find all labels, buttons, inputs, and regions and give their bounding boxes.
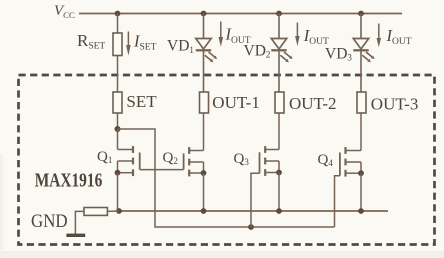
resistor RSET [113, 33, 122, 56]
node junction dots on VCC rail [115, 11, 121, 17]
resistor OUT-2 [275, 92, 284, 113]
node dots on GND rail [116, 208, 122, 214]
current arrow IOUT1 [220, 22, 222, 38]
wire Q4 source to GND rail [360, 173, 362, 211]
resistor R-GND (horizontal) [84, 208, 107, 216]
wire VCC rail [79, 13, 402, 15]
current arrow ISET [127, 32, 129, 46]
wire bus to Q3 gate [251, 173, 260, 227]
wire Q2 drain to OUT-1 [203, 113, 205, 151]
wire SET resistor to node A [117, 113, 119, 129]
wire gate bus from node A [118, 129, 335, 227]
wire node A to Q1 drain [117, 129, 119, 150]
wire VCC to RSET [117, 14, 119, 34]
wire Q3 drain to OUT-2 [278, 113, 280, 150]
node A (SET mirror node) [115, 126, 121, 132]
svg-text:MAX1916: MAX1916 [35, 170, 103, 192]
transistor Q1 [118, 146, 140, 176]
transistor Q4 [340, 147, 361, 177]
wire Q3 source to GND rail [278, 173, 280, 212]
wire GND rail (source bus) [119, 210, 388, 212]
node gate bus junction (Q3 tap) [248, 224, 254, 230]
transistor Q2 [184, 147, 204, 176]
wire resistor to rail [107, 210, 119, 212]
LED VD2 [271, 14, 290, 93]
svg-text:SET: SET [126, 92, 157, 111]
svg-text:GND: GND [31, 212, 68, 232]
LED VD1 [196, 14, 215, 93]
svg-text:OUT-1: OUT-1 [212, 93, 260, 112]
transistor Q3 [260, 146, 280, 176]
wire Q2 source to GND rail [203, 173, 205, 211]
svg-text:OUT-3: OUT-3 [371, 95, 419, 114]
resistor SET (internal) [113, 92, 122, 113]
wire Q1 gate to Q2 gate [140, 169, 184, 171]
current arrow IOUT3 [378, 24, 380, 39]
wire resistor to GND pin [75, 211, 84, 233]
LED VD3 [353, 14, 372, 93]
wire Q1 source to GND rail [117, 173, 119, 211]
resistor OUT-1 [200, 92, 209, 113]
dashed box (MAX1916 IC boundary) [19, 75, 435, 245]
wire Q4 drain to OUT-3 [360, 113, 362, 151]
wire RSET to SET resistor [117, 56, 119, 93]
wire bus to Q4 gate [335, 176, 340, 227]
svg-text:OUT-2: OUT-2 [289, 94, 337, 113]
current arrow IOUT2 [296, 23, 298, 37]
resistor OUT-3 [357, 92, 366, 113]
ground symbol [66, 234, 85, 237]
